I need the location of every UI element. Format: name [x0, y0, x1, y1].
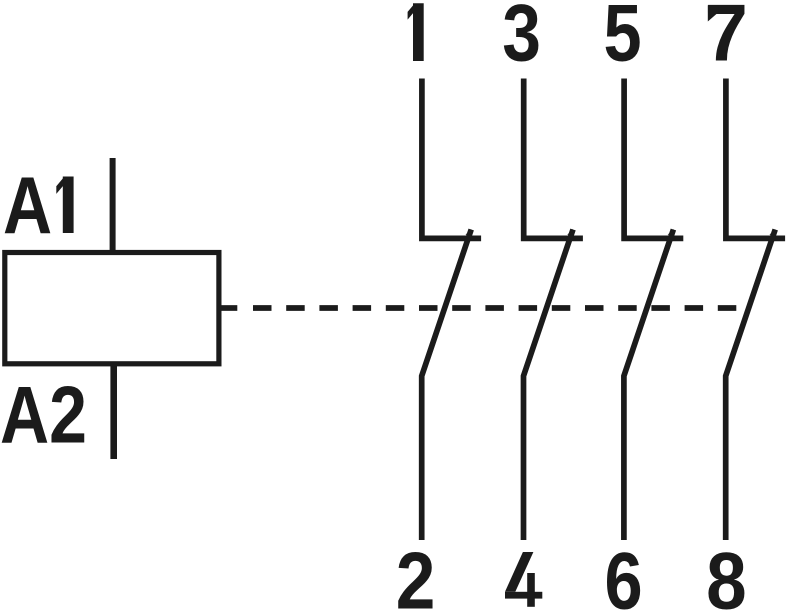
mover tip barb pole 2 — [567, 229, 573, 235]
wire coil terminal A1 lead — [110, 158, 116, 251]
wire dashed actuation link — [253, 305, 737, 311]
coil terminal label A1 digit 1 custom glyph — [63, 177, 74, 234]
mover tip barb pole 1 — [466, 229, 472, 235]
coil K1 — [5, 253, 219, 364]
contact pole 3-4 mover — [524, 230, 574, 541]
contact pole 5-6 mover — [624, 230, 674, 541]
svg-text:A: A — [3, 159, 52, 250]
contact pole 7-8 fixed side — [726, 79, 785, 239]
terminal label 4 custom glyph — [505, 552, 533, 592]
svg-text:6: 6 — [604, 535, 642, 616]
svg-text:A2: A2 — [0, 369, 87, 460]
wire stub from coil to dashed link — [222, 305, 238, 311]
svg-text:5: 5 — [603, 0, 641, 78]
mover tip barb pole 3 — [668, 229, 674, 235]
mover tip barb pole 4 — [770, 229, 776, 235]
contact pole 5-6 fixed side — [624, 79, 683, 239]
contact pole 1-2 fixed side — [422, 79, 481, 239]
svg-text:3: 3 — [502, 0, 541, 78]
wire coil terminal A2 lead — [110, 365, 117, 459]
contact pole 3-4 fixed side — [524, 79, 583, 239]
terminal label 7 top-left spur — [708, 5, 718, 21]
contact pole 7-8 mover — [726, 230, 776, 541]
contact pole 1-2 mover — [422, 230, 472, 541]
terminal label 1 custom glyph — [413, 3, 424, 61]
svg-text:2: 2 — [396, 536, 436, 616]
svg-text:8: 8 — [706, 536, 747, 616]
